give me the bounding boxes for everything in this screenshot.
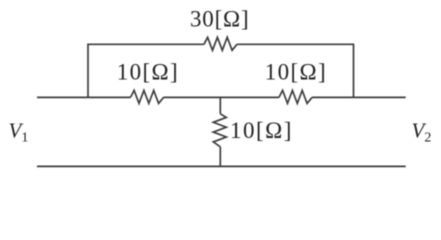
wire middle-right (R10 right to V2 terminal): [312, 96, 406, 98]
resistor R10-left zigzag: [131, 90, 164, 103]
svg-text:V1: V1: [9, 119, 29, 146]
wire top-right (R30 over and down to node B): [237, 44, 354, 97]
resistor R30 zigzag: [204, 37, 237, 50]
wire center vertical upper (junction to R10-mid): [219, 97, 221, 113]
wire middle-left (V1 terminal to R10 left): [37, 96, 131, 98]
resistor R10-mid vertical zigzag: [213, 114, 226, 147]
svg-text:V2: V2: [412, 119, 432, 146]
wire bottom rail: [37, 165, 406, 167]
svg-text:10[Ω]: 10[Ω]: [230, 118, 293, 143]
svg-text:10[Ω]: 10[Ω]: [117, 60, 179, 85]
svg-text:10[Ω]: 10[Ω]: [265, 60, 327, 85]
svg-text:30[Ω]: 30[Ω]: [190, 7, 249, 32]
wire center vertical lower (R10-mid to bottom rail): [219, 147, 221, 167]
resistor R10-right zigzag: [279, 90, 312, 103]
wire top-left (node A up and over to R30): [88, 44, 204, 97]
wire middle-center (R10 left to center node): [164, 96, 280, 98]
